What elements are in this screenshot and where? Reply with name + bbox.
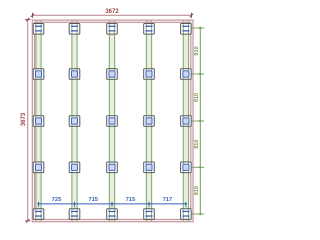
svg-text:717: 717 <box>163 197 173 203</box>
svg-text:910: 910 <box>194 93 200 102</box>
svg-text:910: 910 <box>194 46 200 55</box>
svg-text:910: 910 <box>194 140 200 149</box>
svg-text:3672: 3672 <box>105 9 119 15</box>
svg-text:715: 715 <box>88 197 98 203</box>
svg-text:715: 715 <box>126 197 136 203</box>
svg-text:725: 725 <box>52 197 62 203</box>
svg-text:3673: 3673 <box>21 112 27 126</box>
svg-text:910: 910 <box>194 186 200 195</box>
